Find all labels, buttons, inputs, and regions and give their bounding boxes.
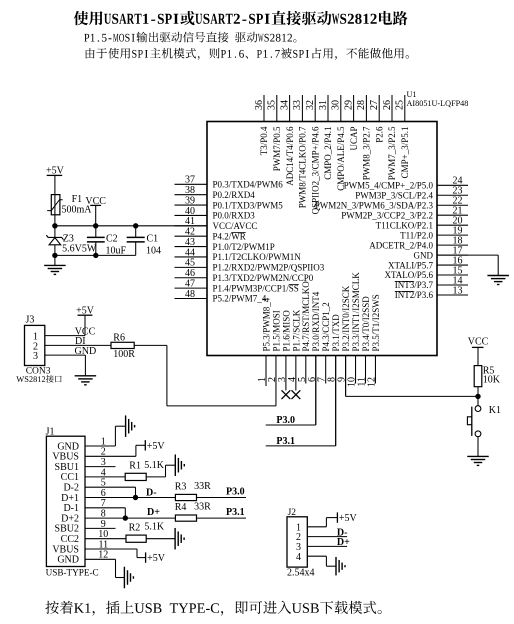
svg-text:T11/P2.0: T11/P2.0 xyxy=(400,230,433,240)
svg-text:CON3: CON3 xyxy=(26,366,51,376)
svg-text:100R: 100R xyxy=(113,349,135,360)
wire VCC bus to U1 pin 41 VCC/AVCC xyxy=(55,225,207,227)
wire J3 pin1 VCC xyxy=(45,335,85,337)
svg-text:35: 35 xyxy=(267,100,278,110)
svg-text:USB-TYPE-C: USB-TYPE-C xyxy=(46,568,99,578)
note line 1 xyxy=(84,32,296,43)
wire J1 pin8 D+2 to R4 xyxy=(85,517,175,519)
bottom note text xyxy=(45,601,381,616)
+5V power symbol (J3) xyxy=(76,306,95,336)
svg-text:C1: C1 xyxy=(147,233,159,244)
WS2812 interface label xyxy=(16,375,61,383)
svg-text:P3.0/RXD/INT4: P3.0/RXD/INT4 xyxy=(311,291,321,351)
wire J1 pin9 SBU2 xyxy=(85,527,116,529)
svg-text:XTALI/P5.7: XTALI/P5.7 xyxy=(388,260,434,270)
svg-text:P1.5/MOSI: P1.5/MOSI xyxy=(271,310,281,351)
svg-text:P1.4/PWM3P/CCP1/SS: P1.4/PWM3P/CCP1/SS xyxy=(213,283,299,293)
svg-text:P1.3/TXD2/PWM2N/CCP0: P1.3/TXD2/PWM2N/CCP0 xyxy=(213,273,314,283)
wire J1 pin1 GND to ground xyxy=(85,426,126,446)
resistor R4 33R xyxy=(175,515,196,521)
junction Z3 bottom xyxy=(52,253,57,258)
svg-text:P1.7/SCLK: P1.7/SCLK xyxy=(291,309,301,351)
svg-text:VCC/AVCC: VCC/AVCC xyxy=(213,221,258,231)
svg-text:R6: R6 xyxy=(113,332,125,343)
svg-text:T11CLKO/P2.1: T11CLKO/P2.1 xyxy=(376,220,433,230)
svg-text:104: 104 xyxy=(146,246,161,257)
wire J2 pin4 to ground xyxy=(307,556,335,566)
wire J3 pin2 DI to R6 xyxy=(45,344,111,346)
svg-text:C2: C2 xyxy=(106,233,118,244)
wire J1 pin2 VBUS to +5V xyxy=(85,445,145,456)
capacitor C2 10uF xyxy=(87,226,105,256)
wire U1 pin9 P3.2 to K1 xyxy=(346,356,478,397)
connector J1 USB-TYPE-C xyxy=(46,426,109,566)
junction R5/K1 xyxy=(475,394,480,399)
svg-text:10uF: 10uF xyxy=(106,246,127,257)
svg-text:4: 4 xyxy=(296,552,301,563)
svg-text:VCC: VCC xyxy=(468,337,489,348)
junction D- net xyxy=(133,495,138,500)
svg-text:P4.3/CCP1_2: P4.3/CCP1_2 xyxy=(321,302,331,351)
wire J1 pin11 VBUS to +5V xyxy=(85,549,146,558)
wire J1 pin10 CC2 to R2 xyxy=(85,538,126,540)
svg-text:PWM3P_3/SCL/P2.4: PWM3P_3/SCL/P2.4 xyxy=(355,190,433,200)
svg-text:PWM7_3/P2.5: PWM7_3/P2.5 xyxy=(387,126,397,180)
svg-text:47: 47 xyxy=(185,279,195,290)
svg-text:ADC14/T4/P0.6: ADC14/T4/P0.6 xyxy=(285,126,295,186)
svg-text:33R: 33R xyxy=(194,502,211,513)
fuse F1 500mA xyxy=(47,195,63,215)
svg-text:28: 28 xyxy=(356,100,367,110)
svg-text:R2: R2 xyxy=(129,522,141,533)
+5V power symbol (J1 pin11) xyxy=(146,552,166,564)
svg-text:D+: D+ xyxy=(337,537,350,548)
svg-text:P4.7/RST/MCLKO: P4.7/RST/MCLKO xyxy=(301,281,311,352)
svg-text:5.1K: 5.1K xyxy=(144,460,165,471)
VCC power symbol (left) xyxy=(85,196,106,226)
wire R4 to P3.1 xyxy=(197,517,247,519)
svg-text:40: 40 xyxy=(185,206,195,217)
svg-text:13: 13 xyxy=(453,285,463,296)
wire R6 to U1 pin2 P1.5/MOSI xyxy=(134,345,276,406)
junction D+ net xyxy=(123,515,128,520)
svg-text:10K: 10K xyxy=(483,374,501,385)
svg-text:P0.3/TXD4/PWM6: P0.3/TXD4/PWM6 xyxy=(213,180,284,190)
svg-text:R3: R3 xyxy=(175,482,187,493)
svg-text:31: 31 xyxy=(318,100,329,110)
svg-text:ADCETR_2/P4.0: ADCETR_2/P4.0 xyxy=(369,240,433,250)
junction at VCC stem on bus xyxy=(93,223,98,228)
svg-text:P3.1: P3.1 xyxy=(276,436,295,447)
capacitor C1 104 xyxy=(127,226,145,256)
wire U1 pin8 to net label P3.1 xyxy=(266,356,336,446)
resistor R2 5.1K xyxy=(126,535,146,542)
svg-text:P3.2/INT0/I2SCK: P3.2/INT0/I2SCK xyxy=(341,285,351,351)
ground symbol (J1 pin1, rotated) xyxy=(126,415,135,437)
svg-text:XTALO/P5.6: XTALO/P5.6 xyxy=(384,270,433,280)
IC U1 AI8051U-LQFP48 body xyxy=(207,122,437,356)
wire J1 pin7 D-1 xyxy=(85,508,125,518)
no-connect X on pin 4 P1.7/SCLK xyxy=(292,390,301,399)
wire F1 to VCC bus xyxy=(54,215,56,226)
svg-text:+5V: +5V xyxy=(147,553,166,564)
U1 top pins 36-25 (stubs, numbers, names) xyxy=(254,95,410,214)
svg-text:38: 38 xyxy=(185,185,195,196)
svg-text:PWM8_3/P2.7: PWM8_3/P2.7 xyxy=(362,126,372,180)
wire J1 pin5 D-2 xyxy=(85,487,136,497)
svg-text:P0.1/TXD3/PWM5: P0.1/TXD3/PWM5 xyxy=(213,200,284,210)
junction C2 bottom xyxy=(93,253,98,258)
svg-text:33R: 33R xyxy=(194,481,211,492)
svg-text:UCAP: UCAP xyxy=(349,127,359,151)
svg-text:29: 29 xyxy=(343,100,354,110)
svg-text:+5V: +5V xyxy=(147,441,166,452)
svg-text:K1: K1 xyxy=(489,405,501,416)
U1 bottom pins 1-12 (stubs, numbers, names) xyxy=(257,272,381,446)
svg-text:2.54x4: 2.54x4 xyxy=(287,567,315,578)
junction at F1/Z3 on bus xyxy=(52,223,57,228)
ground symbol (R2, rotated) xyxy=(175,528,184,550)
svg-text:PWM2N_3/PWM6_3/SDA/P2.3: PWM2N_3/PWM6_3/SDA/P2.3 xyxy=(315,200,434,210)
resistor R6 100R xyxy=(111,342,134,348)
svg-text:46: 46 xyxy=(185,268,195,279)
svg-text:25: 25 xyxy=(395,100,406,110)
svg-text:P3.0: P3.0 xyxy=(226,486,245,497)
ground symbol (J1 pin12, rotated) xyxy=(124,567,133,589)
+5V power symbol (J1 pin2) xyxy=(145,440,165,452)
ground symbol (U1 GND) xyxy=(487,276,509,285)
svg-text:37: 37 xyxy=(185,175,195,186)
svg-text:P2.6: P2.6 xyxy=(374,126,384,143)
svg-text:GND: GND xyxy=(75,346,97,357)
ground symbol (J2, rotated) xyxy=(336,557,345,575)
svg-text:39: 39 xyxy=(185,195,195,206)
ground symbol (K1) xyxy=(467,456,489,465)
ground symbol (below Z3) xyxy=(44,265,66,274)
wire R2 to ground xyxy=(146,538,175,540)
svg-text:3: 3 xyxy=(33,351,38,362)
svg-text:48: 48 xyxy=(185,289,195,300)
wire J2 pin1 to +5V xyxy=(307,518,337,527)
ground net wire Z3/C2/C1 xyxy=(55,254,136,256)
wire J1 pin4 CC1 to R1 xyxy=(85,476,125,478)
wire J3 pin3 GND xyxy=(45,355,86,376)
VCC power symbol (right) xyxy=(468,337,489,366)
wire R3 to P3.0 xyxy=(197,497,247,499)
svg-text:45: 45 xyxy=(185,258,195,269)
svg-text:R1: R1 xyxy=(129,461,141,472)
svg-text:P5.2/PWM7_4: P5.2/PWM7_4 xyxy=(213,294,267,304)
connector J3 CON3 xyxy=(25,315,45,366)
ground symbol (R1, rotated) xyxy=(175,454,184,476)
svg-text:+5V: +5V xyxy=(339,513,358,524)
svg-text:PWM5_4/CMP+_2/P5.0: PWM5_4/CMP+_2/P5.0 xyxy=(344,181,434,191)
wire R1 to ground xyxy=(146,465,175,477)
svg-text:PWM2P_3/CCP2_3/P2.2: PWM2P_3/CCP2_3/P2.2 xyxy=(341,210,433,220)
wire J1 pin12 GND to ground xyxy=(85,559,124,577)
junction at C1 on bus xyxy=(133,223,138,228)
svg-text:32: 32 xyxy=(305,100,316,110)
svg-text:5.1K: 5.1K xyxy=(144,522,165,533)
svg-text:P3.4/T0/I2SSD: P3.4/T0/I2SSD xyxy=(361,296,371,352)
svg-text:R4: R4 xyxy=(175,502,187,513)
svg-text:P1.2/RXD2/PWM2P/QSPIIO3: P1.2/RXD2/PWM2P/QSPIIO3 xyxy=(213,263,325,273)
svg-text:P3.5/T1/I2SWS: P3.5/T1/I2SWS xyxy=(371,294,381,351)
svg-text:P0.2/RXD4: P0.2/RXD4 xyxy=(213,190,256,200)
wire J2 pin3 D+ xyxy=(307,545,347,547)
note line 2 xyxy=(86,48,409,60)
svg-text:27: 27 xyxy=(369,100,380,110)
resistor R1 5.1K xyxy=(125,473,146,480)
svg-text:P3.0: P3.0 xyxy=(276,415,295,426)
svg-text:P0.0/RXD3: P0.0/RXD3 xyxy=(213,211,256,221)
wire U1 pin6 to net label P3.0 xyxy=(266,356,316,426)
wire J1 pin6 D+1 to R3 xyxy=(85,497,175,499)
zener diode Z3 5.6V5W xyxy=(46,226,63,256)
svg-text:34: 34 xyxy=(279,100,290,110)
wire Z3 to ground xyxy=(54,255,56,265)
svg-text:P5.3/PWM8_4: P5.3/PWM8_4 xyxy=(261,297,271,351)
svg-text:P1.1/T2CLKO/PWM1N: P1.1/T2CLKO/PWM1N xyxy=(213,252,302,262)
svg-text:PWM7/P0.5: PWM7/P0.5 xyxy=(272,126,282,171)
wire J2 pin2 D- xyxy=(307,536,347,538)
svg-text:GND: GND xyxy=(414,250,434,260)
wire +5V to fuse F1 xyxy=(54,175,56,194)
svg-text:36: 36 xyxy=(254,100,265,110)
svg-text:CMPO_2/P4.1: CMPO_2/P4.1 xyxy=(323,127,333,180)
push button K1 xyxy=(467,396,481,456)
svg-text:CMP+_3/P5.1: CMP+_3/P5.1 xyxy=(400,127,410,179)
resistor R5 10K xyxy=(474,366,482,387)
svg-text:42: 42 xyxy=(185,227,195,238)
svg-text:33: 33 xyxy=(292,100,303,110)
svg-text:26: 26 xyxy=(382,100,393,110)
svg-text:P3.3/INT1/I2SMCLK: P3.3/INT1/I2SMCLK xyxy=(351,272,361,352)
svg-text:P3.1/TXD: P3.1/TXD xyxy=(331,314,341,352)
svg-text:30: 30 xyxy=(331,100,342,110)
svg-text:PWM8/T4CLKO/P0.7: PWM8/T4CLKO/P0.7 xyxy=(298,126,308,208)
wire J1 pin3 SBU1 xyxy=(85,466,116,468)
resistor R3 33R xyxy=(175,494,196,500)
svg-text:44: 44 xyxy=(185,247,195,258)
U1 right pins 24-13 (stubs, numbers, names) xyxy=(315,176,468,300)
connector J2 2.54x4 xyxy=(287,508,307,567)
svg-text:D-: D- xyxy=(146,487,157,498)
wire U1 pin17 GND to ground xyxy=(437,255,498,275)
wire R5 to K1 junction xyxy=(477,387,479,397)
svg-text:J3: J3 xyxy=(26,315,35,326)
svg-text:43: 43 xyxy=(185,237,195,248)
U1 left pins 37-48 (stubs, numbers, names) xyxy=(175,175,325,304)
svg-text:T3/P0.4: T3/P0.4 xyxy=(259,126,269,155)
svg-text:D+: D+ xyxy=(147,507,160,518)
ground symbol (J3) xyxy=(75,376,97,385)
svg-text:AI8051U-LQFP48: AI8051U-LQFP48 xyxy=(407,99,469,108)
svg-text:5.6V5W: 5.6V5W xyxy=(62,244,97,255)
svg-text:P1.6/MISO: P1.6/MISO xyxy=(281,310,291,352)
+5V power symbol (J2) xyxy=(337,512,357,524)
svg-text:12: 12 xyxy=(366,377,377,387)
svg-text:P3.1: P3.1 xyxy=(226,507,245,518)
title text xyxy=(74,11,408,25)
no-connect X on pin 3 P1.6/MISO xyxy=(282,390,291,399)
svg-text:GND: GND xyxy=(57,555,79,566)
+5V power symbol (main supply) xyxy=(46,166,65,177)
svg-text:P1.0/T2/PWM1P: P1.0/T2/PWM1P xyxy=(213,242,275,252)
svg-text:U1: U1 xyxy=(407,90,417,99)
